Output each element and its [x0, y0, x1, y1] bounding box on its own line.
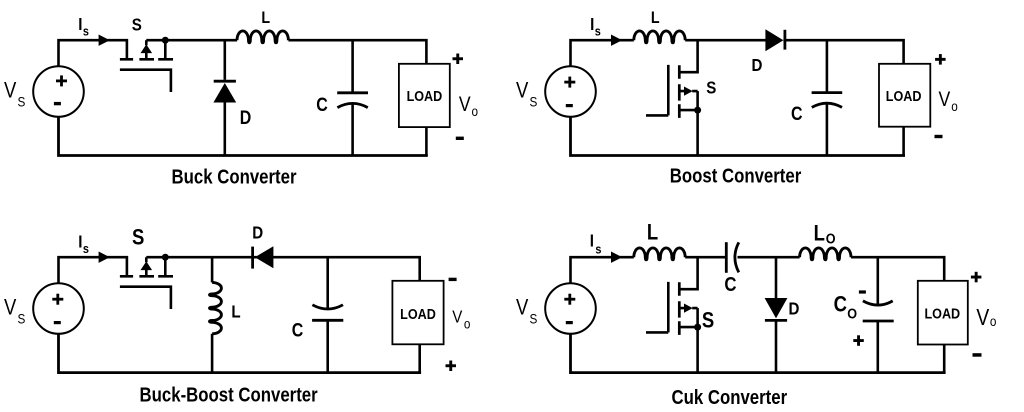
svg-text:V: V	[976, 305, 990, 330]
wire: buck bottom rail	[59, 117, 427, 156]
wire: buck-boost bottom rail	[59, 334, 420, 373]
label + output (buck-boost)	[446, 361, 457, 372]
switch S MOSFET (buck-boost)	[120, 254, 173, 309]
svg-text:I: I	[78, 14, 82, 35]
svg-text:S: S	[132, 14, 142, 35]
label Vs (buck-boost)	[4, 296, 26, 326]
wire: boost top rail left	[571, 40, 634, 66]
svg-text:V: V	[459, 93, 471, 117]
label Vo (buck-boost)	[452, 306, 470, 331]
svg-text:V: V	[452, 306, 462, 327]
label Is (buck)	[78, 14, 89, 39]
wire: buck top rail right with elbow to load	[288, 40, 426, 64]
svg-text:L: L	[261, 9, 270, 27]
svg-text:s: s	[595, 24, 601, 39]
svg-text:L: L	[814, 222, 825, 246]
svg-text:C: C	[316, 94, 328, 116]
svg-text:LOAD: LOAD	[924, 304, 960, 321]
svg-text:C: C	[292, 319, 304, 341]
label + output (boost)	[935, 54, 946, 65]
svg-text:V: V	[939, 88, 951, 112]
label Vs (Cuk)	[516, 296, 538, 326]
load box (boost)	[879, 64, 930, 127]
current arrow Is (Cuk)	[611, 252, 622, 263]
inductor L (buck-boost)	[210, 257, 222, 372]
svg-text:L: L	[651, 9, 660, 27]
current arrow Is (buck-boost)	[99, 252, 110, 263]
svg-text:I: I	[78, 231, 82, 252]
wire: Cuk top rail left	[571, 257, 634, 283]
svg-text:L: L	[647, 221, 658, 245]
wire: boost load bottom lead	[902, 127, 905, 156]
svg-text:s: s	[83, 241, 89, 256]
label - output (buck)	[456, 137, 464, 140]
label Is (Cuk)	[590, 230, 602, 257]
svg-text:O: O	[847, 304, 857, 321]
capacitor C (buck-boost)	[312, 257, 343, 372]
svg-text:C: C	[724, 272, 736, 295]
wire: buck-boost top rail with elbow to load	[146, 257, 419, 281]
label Is (boost)	[590, 14, 601, 39]
svg-text:S: S	[530, 93, 538, 109]
svg-text:D: D	[752, 55, 763, 76]
label Is (buck-boost)	[78, 231, 89, 256]
switch S MOSFET (boost)	[646, 40, 701, 155]
svg-text:V: V	[516, 79, 529, 103]
current arrow Is (buck)	[99, 35, 110, 46]
diode D (boost)	[765, 29, 785, 51]
wire: buck top rail left + switch drain drop	[59, 40, 127, 66]
svg-text:D: D	[252, 222, 263, 243]
label Vs (boost)	[516, 79, 538, 109]
svg-text:I: I	[590, 230, 594, 251]
capacitor C (boost)	[812, 40, 843, 155]
wire: Cuk top rail right with elbow to load	[851, 257, 944, 281]
wire: Cuk rail from series cap to output inductor	[738, 256, 800, 259]
wire: buck top rail middle	[146, 39, 237, 42]
voltage source Vs (boost)	[545, 66, 596, 117]
label - output (Cuk)	[973, 353, 982, 357]
svg-text:C: C	[834, 293, 848, 317]
switch S MOSFET (buck)	[120, 37, 173, 92]
svg-text:o: o	[990, 313, 997, 329]
label - polarity Co (Cuk)	[859, 290, 866, 293]
wire: boost top rail right with elbow to load	[783, 40, 903, 64]
svg-text:V: V	[4, 296, 17, 320]
svg-text:V: V	[4, 79, 17, 103]
capacitor C (buck)	[337, 40, 368, 155]
inductor L (Cuk)	[634, 248, 685, 260]
svg-text:LOAD: LOAD	[407, 87, 443, 104]
wire: Cuk bottom rail	[571, 334, 945, 373]
svg-text:o: o	[951, 98, 958, 114]
series capacitor C (Cuk)	[726, 242, 739, 273]
svg-text:S: S	[18, 93, 26, 109]
label - output (boost)	[935, 135, 943, 138]
diode D (buck)	[213, 40, 236, 155]
svg-text:Buck Converter: Buck Converter	[171, 165, 296, 188]
wire: buck-boost top rail left + switch drain drop	[59, 257, 127, 283]
svg-text:I: I	[590, 14, 594, 35]
svg-text:S: S	[18, 310, 26, 326]
svg-text:s: s	[595, 242, 601, 257]
svg-text:S: S	[702, 309, 714, 333]
voltage source Vs (buck)	[33, 66, 84, 117]
svg-text:Buck-Boost Converter: Buck-Boost Converter	[140, 383, 318, 406]
svg-text:o: o	[472, 103, 479, 119]
svg-text:D: D	[789, 298, 800, 319]
svg-text:s: s	[83, 24, 89, 39]
svg-text:LOAD: LOAD	[400, 305, 436, 322]
voltage source Vs (buck-boost)	[33, 283, 84, 334]
label Vo (buck)	[459, 93, 478, 119]
inductor L (boost)	[634, 31, 685, 43]
svg-text:O: O	[826, 230, 836, 247]
svg-text:S: S	[706, 77, 716, 98]
load box (buck)	[399, 64, 450, 127]
svg-text:o: o	[464, 315, 471, 331]
wire: buck-boost load bottom lead	[418, 344, 421, 372]
wire: Cuk load bottom lead	[943, 345, 946, 373]
voltage source Vs (Cuk)	[545, 283, 596, 334]
svg-text:V: V	[516, 296, 529, 320]
label - output (buck-boost)	[449, 278, 457, 281]
svg-text:S: S	[132, 226, 144, 250]
svg-text:S: S	[530, 310, 538, 326]
svg-text:C: C	[791, 103, 803, 125]
svg-text:LOAD: LOAD	[886, 87, 922, 104]
load box (Cuk)	[918, 281, 968, 345]
capacitor Co (Cuk)	[863, 257, 894, 372]
svg-text:Boost Converter: Boost Converter	[670, 164, 802, 187]
inductor L (buck)	[237, 31, 288, 43]
svg-text:D: D	[240, 107, 252, 129]
svg-text:Cuk Converter: Cuk Converter	[671, 386, 787, 409]
diode D (Cuk)	[765, 257, 788, 372]
svg-text:L: L	[231, 301, 240, 322]
label + output (Cuk)	[971, 272, 982, 283]
label + polarity Co (Cuk)	[853, 335, 864, 346]
label + output (buck)	[453, 54, 464, 65]
wire: boost bottom rail	[571, 117, 904, 156]
label Vs (buck)	[4, 79, 26, 109]
label Vo (boost)	[939, 88, 958, 114]
label Lo (Cuk)	[814, 222, 836, 247]
current arrow Is (boost)	[611, 35, 622, 46]
wire: Cuk rail from L to series capacitor	[685, 256, 726, 259]
diode D (buck-boost)	[253, 246, 274, 268]
switch S MOSFET (Cuk)	[646, 257, 701, 372]
wire: boost top rail middle	[685, 39, 765, 42]
label Vo (Cuk)	[976, 305, 996, 330]
wire: buck load bottom lead	[425, 127, 428, 155]
load box (buck-boost)	[392, 281, 443, 345]
label Co (Cuk)	[834, 293, 858, 321]
inductor Lo (Cuk)	[800, 248, 851, 260]
